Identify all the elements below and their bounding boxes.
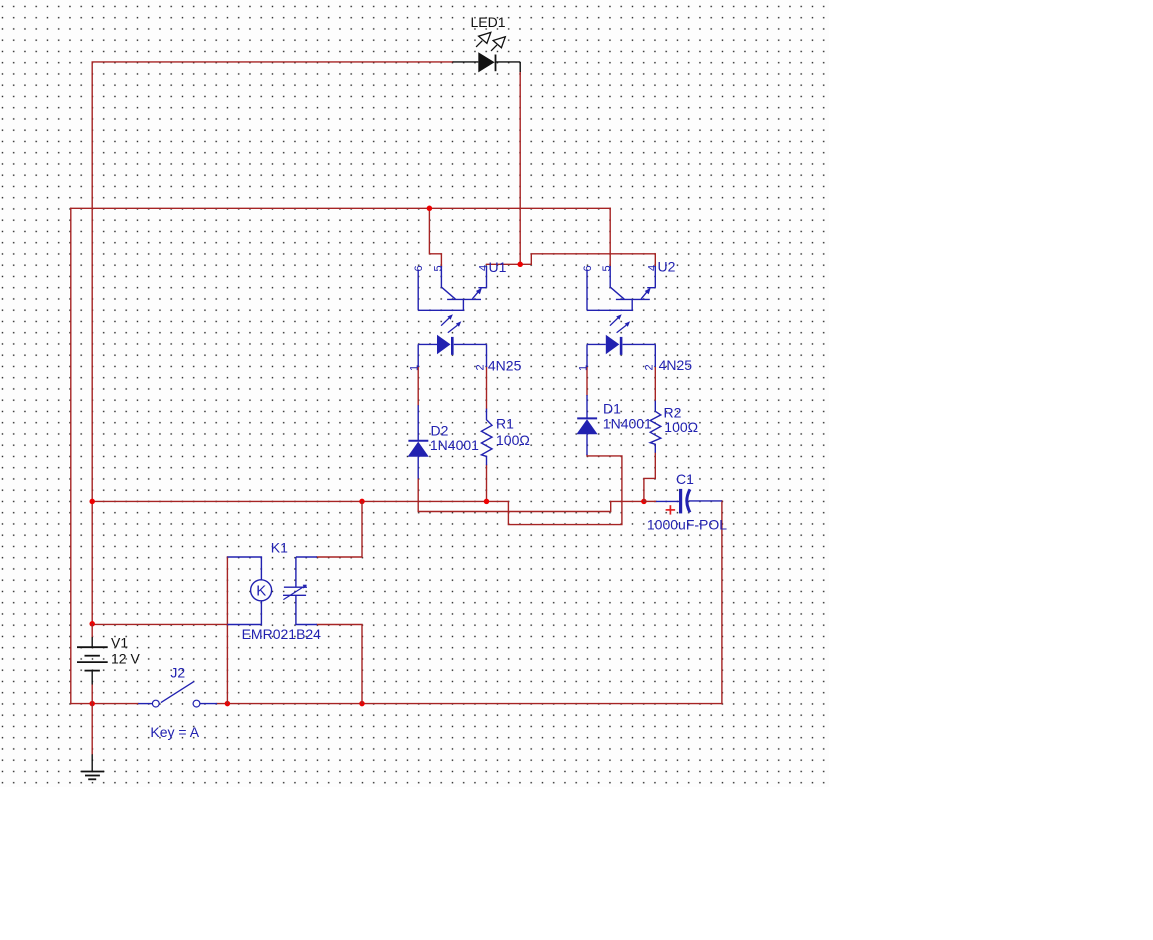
- wire: U2 pin5 feed: [609, 208, 611, 266]
- wire: battery stub red top: [91, 624, 93, 637]
- U1 emitter wrap: [418, 299, 463, 310]
- wire: C1 node stub: [644, 500, 656, 502]
- optocoupler U2: [587, 266, 655, 367]
- svg-text:12 V: 12 V: [111, 650, 140, 666]
- U1 emission arrows: [441, 318, 449, 326]
- node: dot C1 left: [641, 499, 647, 505]
- wire: R1 bottom to bus: [486, 465, 488, 501]
- K1 contact branch: [296, 556, 317, 558]
- U1 pin 4: [486, 266, 488, 288]
- resistor R1: [481, 409, 492, 466]
- svg-text:1: 1: [409, 365, 421, 371]
- svg-text:J2: J2: [170, 664, 185, 680]
- wire: main bus with jog to D1 bottom: [92, 455, 622, 524]
- wire: relay contact bottom to rail: [317, 625, 362, 704]
- wire: D2 bottom net to C1 node: [418, 479, 644, 512]
- wire: battery stub red bottom: [91, 685, 93, 704]
- svg-text:LED1: LED1: [471, 14, 506, 30]
- node: dot bus left rail: [89, 499, 95, 505]
- diode LED1: [453, 32, 521, 72]
- U2 base bar: [616, 298, 650, 300]
- node: dot bus R1: [484, 499, 490, 505]
- ground: [81, 754, 104, 779]
- U1 collector diagonal: [472, 289, 481, 299]
- wire: U1 pin2 to R1: [486, 367, 488, 409]
- svg-text:5: 5: [432, 265, 444, 271]
- K1 coil branch: [227, 557, 261, 580]
- svg-text:4: 4: [478, 265, 490, 271]
- node: dot battery top: [89, 621, 95, 627]
- svg-text:V1: V1: [111, 634, 128, 650]
- switch J2: [138, 681, 217, 707]
- svg-text:U2: U2: [658, 259, 676, 275]
- svg-text:1N4001: 1N4001: [430, 437, 479, 453]
- U2 pin 1: [586, 344, 588, 367]
- svg-text:1N4001: 1N4001: [603, 415, 652, 431]
- U2 pin numbers 6 5 4 1 2: [577, 265, 658, 371]
- node: dot bus relay: [359, 499, 365, 505]
- grid area: [0, 0, 829, 787]
- wire: R2 bottom jog to C1 node: [644, 453, 655, 502]
- U2 emitter wrap: [587, 299, 632, 310]
- battery V1: [77, 637, 108, 684]
- wire: LED1 cathode down to U1 pin4 node: [519, 72, 521, 264]
- wire: U1 pin1 to D2: [417, 367, 419, 405]
- relay K1: [227, 557, 317, 625]
- svg-text:K1: K1: [271, 539, 288, 555]
- svg-text:2: 2: [643, 364, 655, 370]
- U1 base bar: [447, 298, 481, 300]
- svg-text:6: 6: [413, 265, 425, 271]
- svg-text:K: K: [256, 583, 266, 600]
- wire: top rail y=208: [71, 207, 610, 209]
- wire: far-left vertical: [70, 208, 72, 703]
- svg-text:R1: R1: [496, 416, 514, 432]
- node: dot on top rail: [427, 206, 433, 212]
- U1 pin 1: [417, 344, 419, 367]
- U1 pin 6: [417, 270, 419, 311]
- wire: left rail top to LED1: [92, 62, 452, 624]
- U2 pin 6: [586, 270, 588, 311]
- node: dot LED1/U1 pin4: [517, 262, 523, 268]
- svg-text:2: 2: [475, 364, 487, 370]
- svg-text:D1: D1: [603, 400, 621, 416]
- node: dot rail J2: [225, 701, 231, 707]
- wire: U2 pin2 to R2: [654, 367, 656, 401]
- U1 pin 5: [441, 266, 455, 299]
- svg-text:U1: U1: [489, 259, 507, 275]
- LED1 emission arrow 1: [476, 41, 482, 47]
- U1 pin 2: [486, 344, 488, 367]
- svg-text:1: 1: [577, 365, 589, 371]
- svg-text:EMR021B24: EMR021B24: [242, 626, 322, 642]
- svg-text:100Ω: 100Ω: [496, 432, 530, 448]
- U2 collector diagonal: [641, 289, 650, 299]
- U2 emission arrows: [610, 318, 618, 326]
- svg-text:4N25: 4N25: [659, 357, 693, 373]
- svg-text:1000uF-POL: 1000uF-POL: [647, 517, 727, 533]
- wire: U1 pin4 to LED node to U2 pin4: [487, 254, 656, 266]
- C1 plus sign: [666, 505, 676, 514]
- wire: C1 right down to bottom rail: [721, 501, 723, 704]
- svg-text:4: 4: [647, 265, 659, 271]
- U2 pin 2: [654, 344, 656, 367]
- svg-text:5: 5: [601, 265, 613, 271]
- wire: bottom rail: [71, 703, 138, 705]
- LED1 emission arrow 2: [491, 45, 497, 51]
- svg-text:Key = A: Key = A: [150, 724, 199, 740]
- U1 LED: [418, 343, 437, 345]
- diode D1: [576, 395, 597, 455]
- U2 LED: [587, 343, 606, 345]
- svg-text:6: 6: [582, 265, 594, 271]
- U2 pin 4: [654, 266, 656, 288]
- wire: battery plus to coil bottom: [92, 623, 227, 625]
- wire: relay contact top feed: [317, 501, 362, 557]
- wire: relay coil-side vertical: [226, 557, 228, 704]
- svg-text:100Ω: 100Ω: [664, 419, 698, 435]
- U1 pin numbers 6 5 4 1 2: [409, 265, 490, 371]
- svg-text:C1: C1: [676, 471, 694, 487]
- wire: ground feed: [91, 704, 93, 755]
- wire: U2 pin1 to D1: [586, 367, 588, 395]
- resistor R2: [650, 401, 661, 453]
- capacitor C1: [656, 489, 722, 514]
- optocoupler U1: [418, 266, 486, 367]
- wire: U1 pin5 feed: [429, 208, 441, 266]
- U2 pin 5: [610, 266, 624, 299]
- svg-text:4N25: 4N25: [488, 358, 522, 374]
- node: dot rail battery: [89, 701, 95, 707]
- node: dot rail relay: [359, 701, 365, 707]
- diode D2: [408, 405, 429, 478]
